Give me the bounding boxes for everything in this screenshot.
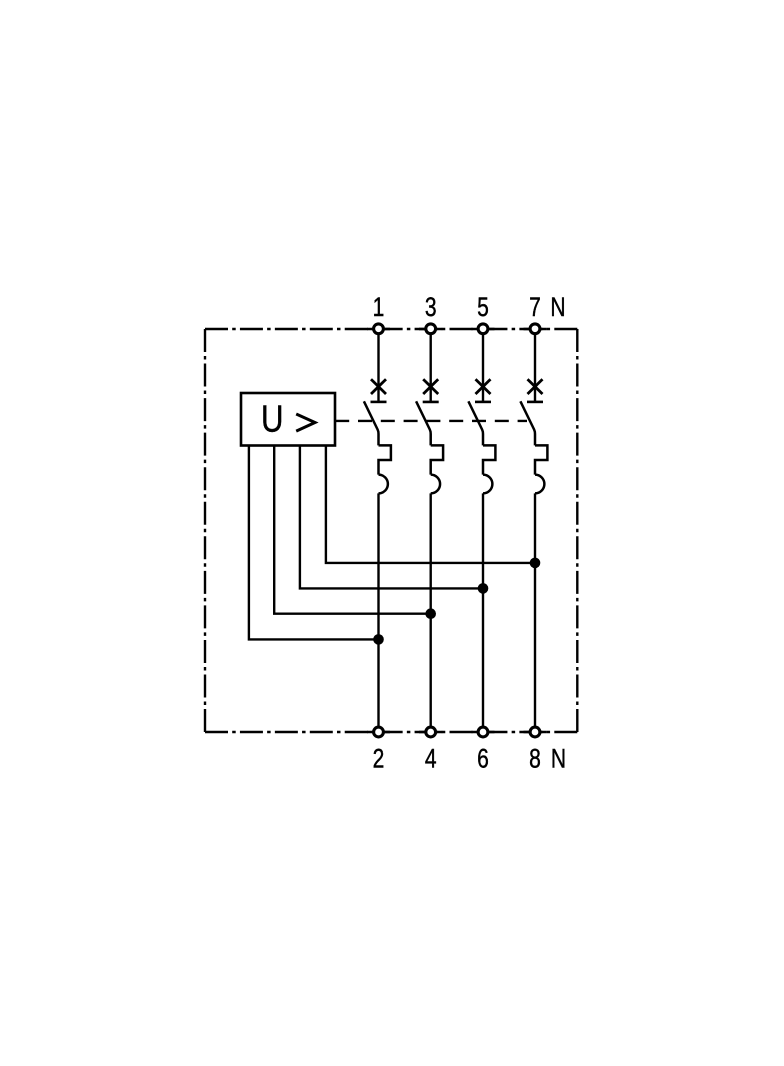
terminal circle 8 xyxy=(530,727,540,737)
pole 4 thermal release bump xyxy=(535,445,547,474)
enclosure dash-dot border right xyxy=(576,329,578,732)
junction dot pole 4 xyxy=(530,558,541,569)
solid stubs at terminal circles xyxy=(367,329,547,732)
enclosure dash-dot border top xyxy=(205,328,577,330)
pole 4 switch blade xyxy=(520,401,535,445)
pole 4 contact T-bar xyxy=(527,401,543,404)
pole 2 wire top xyxy=(430,334,432,402)
pole 3 contact T-bar xyxy=(475,401,491,404)
pole 2 thermal release bump xyxy=(431,445,443,474)
pole 4 wire bottom xyxy=(534,493,536,726)
enclosure dash-dot border left xyxy=(204,329,206,732)
pole 1 breaker X xyxy=(371,379,386,394)
sensing wire from box to pole 2 xyxy=(274,446,431,614)
pole 1 wire bottom xyxy=(377,493,379,726)
pole 1 wire top xyxy=(377,334,379,402)
pole 2 breaker X xyxy=(423,379,438,394)
sensing wire from box to pole 3 xyxy=(300,446,483,589)
svg-text:4: 4 xyxy=(425,744,437,774)
svg-text:5: 5 xyxy=(477,293,489,323)
pole 4 breaker X xyxy=(528,379,543,394)
pole 2 switch blade xyxy=(416,401,431,445)
svg-text:U: U xyxy=(261,399,284,441)
terminal circle 6 xyxy=(478,727,488,737)
pole 2 wire bottom xyxy=(430,493,432,726)
pole 2 magnetic release semicircle xyxy=(431,475,440,494)
enclosure dash-dot border bottom xyxy=(205,731,577,733)
svg-text:3: 3 xyxy=(425,293,437,323)
terminal circle 3 xyxy=(426,324,436,334)
svg-text:8: 8 xyxy=(529,744,541,774)
junction dot pole 2 xyxy=(425,608,436,619)
svg-text:N: N xyxy=(551,744,566,774)
junction dot pole 3 xyxy=(478,583,489,594)
terminal circle 5 xyxy=(478,324,488,334)
pole 3 switch blade xyxy=(468,401,483,445)
pole 1 thermal release bump xyxy=(379,445,391,474)
pole 4 magnetic release semicircle xyxy=(535,475,544,494)
trip linkage dashed line xyxy=(335,420,527,422)
pole 3 wire bottom xyxy=(482,493,484,726)
pole 4 wire top xyxy=(534,334,536,402)
pole 3 wire top xyxy=(482,334,484,402)
sensing wire from box to pole 1 xyxy=(249,446,379,640)
svg-text:N: N xyxy=(550,293,565,323)
pole 1 switch blade xyxy=(364,401,379,445)
pole 1 magnetic release semicircle xyxy=(379,475,388,494)
terminal circle 4 xyxy=(426,727,436,737)
junction dot pole 1 xyxy=(373,634,384,645)
terminal circle 1 xyxy=(374,324,384,334)
pole 2 contact T-bar xyxy=(423,401,439,404)
terminal circle 7 xyxy=(530,324,540,334)
pole 3 breaker X xyxy=(476,379,491,394)
pole 3 magnetic release semicircle xyxy=(483,475,492,494)
sensing wire from box to pole 4 xyxy=(326,446,535,563)
svg-text:2: 2 xyxy=(373,744,385,774)
terminal circle 2 xyxy=(374,727,384,737)
svg-text:6: 6 xyxy=(477,744,489,774)
greater-than symbol xyxy=(296,414,315,431)
svg-text:7: 7 xyxy=(529,293,541,323)
overvoltage release box U> xyxy=(241,393,335,446)
pole 1 contact T-bar xyxy=(371,401,387,404)
svg-text:1: 1 xyxy=(373,293,385,323)
pole 3 thermal release bump xyxy=(483,445,495,474)
